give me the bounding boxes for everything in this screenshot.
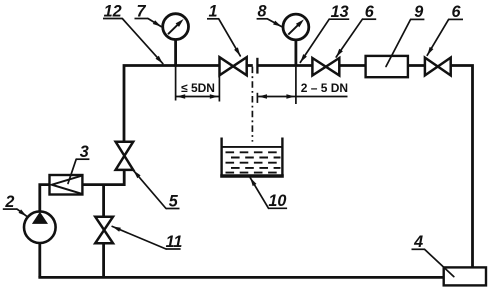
- wire: stub from valve 1 to test-section centreline: [247, 64, 253, 67]
- wire: top pipe left section and left vertical drop to valve 5: [124, 66, 220, 142]
- dimension line <=5DN with arrows: [176, 94, 220, 98]
- test-section centreline (dash-dot): [251, 67, 253, 142]
- label 12 with leader: [103, 2, 163, 63]
- label 8 with leader: [257, 3, 282, 27]
- svg-text:11: 11: [166, 233, 183, 251]
- dimension: <=5DN extension line (valve 1 face): [218, 76, 220, 102]
- wire: branch down to valve 11: [102, 185, 105, 217]
- svg-text:6: 6: [365, 3, 375, 21]
- wire: pipe from flange tick to left valve 6: [257, 64, 312, 67]
- svg-text:3: 3: [80, 143, 89, 161]
- dimension line 2-5DN with arrows and leader under text: [258, 94, 347, 98]
- label 11 with leader: [112, 226, 182, 250]
- label 9 with leader: [386, 3, 424, 66]
- dimension: 2-5DN extension segment below flange tick: [256, 93, 258, 103]
- valve 6 right of device 9: [425, 58, 451, 76]
- label 4 with leader: [412, 233, 454, 277]
- wire: pipe from left valve 6 to device 9: [339, 64, 366, 67]
- label 10 with leader: [250, 178, 287, 210]
- valve 1 (bowtie, horizontal): [220, 57, 247, 75]
- svg-text:≤ 5DN: ≤ 5DN: [181, 81, 215, 95]
- filter / heat-exchanger 3 (rect with triangle): [50, 175, 83, 195]
- label 6 with leader: [427, 3, 463, 55]
- wire: pump outlet down to bottom pipe: [38, 243, 41, 277]
- dimension: 2-5DN extension line (gauge 8 stem): [295, 67, 297, 104]
- wire: filter 3 inlet and pump riser: [40, 185, 50, 212]
- device 4 (rectangle): [444, 267, 486, 285]
- pressure gauge 7: [163, 14, 189, 67]
- label 6 with leader: [336, 3, 376, 57]
- svg-text:1: 1: [208, 3, 217, 21]
- svg-text:10: 10: [268, 192, 286, 210]
- valve 5 (bowtie, vertical): [116, 142, 134, 170]
- wire: pipe from right valve 6 around right side down to device 4: [451, 66, 473, 268]
- label 13 with leader: [300, 3, 349, 62]
- wire: valve 11 down to bottom pipe: [102, 243, 105, 277]
- label 5 with leader: [133, 170, 179, 210]
- pump 2 (circle with filled triangle): [24, 211, 56, 243]
- label 3 with leader: [68, 143, 89, 184]
- valve 11 (bowtie, vertical): [95, 217, 113, 244]
- tank 10: [220, 138, 284, 177]
- label 2 with leader: [3, 193, 27, 216]
- device 9 (rectangle): [366, 56, 408, 77]
- svg-text:2 – 5 DN: 2 – 5 DN: [301, 81, 348, 95]
- label 1 with leader: [207, 3, 240, 56]
- flange tick at test section: [256, 58, 258, 74]
- svg-text:9: 9: [414, 3, 423, 21]
- label 7 with leader: [135, 2, 162, 26]
- svg-text:4: 4: [413, 233, 423, 251]
- valve 6 left of device 9: [312, 58, 339, 75]
- wire: bottom return pipe to device 4: [38, 276, 443, 279]
- pressure gauge 8: [283, 14, 309, 67]
- svg-text:7: 7: [136, 2, 146, 20]
- dimension: <=5DN extension line (gauge 7 stem): [175, 67, 177, 101]
- wire: below valve 5 to filter-level horizontal run: [83, 170, 125, 185]
- svg-text:2: 2: [4, 193, 14, 211]
- wire: pipe from device 9 to right valve 6: [408, 64, 425, 67]
- svg-text:5: 5: [169, 192, 179, 210]
- svg-text:12: 12: [104, 2, 122, 20]
- svg-text:8: 8: [257, 3, 266, 21]
- svg-text:13: 13: [331, 3, 349, 21]
- svg-text:6: 6: [451, 3, 461, 21]
